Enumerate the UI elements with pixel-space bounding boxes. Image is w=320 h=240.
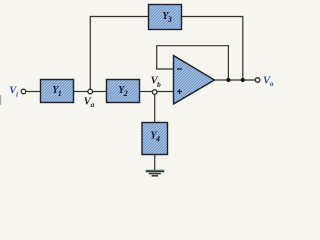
wire Y4 to ground bbox=[154, 155, 156, 171]
svg-text:3: 3 bbox=[167, 15, 172, 24]
node terminal Vi bbox=[21, 89, 26, 94]
junction dot feedback/output bbox=[226, 78, 230, 82]
svg-text:1: 1 bbox=[58, 89, 62, 98]
wire feedback: minus input left, up, over op-amp, down to output bbox=[157, 46, 229, 80]
block Y1 bbox=[41, 80, 74, 103]
op-amp plus pin mark bbox=[177, 89, 182, 94]
block Y2 bbox=[107, 80, 140, 103]
svg-text:4: 4 bbox=[155, 135, 160, 144]
node Va bbox=[88, 89, 93, 94]
wire Y2 to node Vb bbox=[140, 91, 153, 93]
wire node Vb to op-amp + input bbox=[157, 91, 174, 93]
wire node Va to Y2 bbox=[92, 91, 106, 93]
ground bbox=[146, 170, 164, 176]
svg-text:2: 2 bbox=[123, 89, 128, 98]
op-amp U1 bbox=[174, 56, 215, 105]
block Y4 bbox=[142, 123, 168, 155]
block Y3 bbox=[149, 5, 182, 30]
junction dot Y3/output bbox=[241, 78, 245, 82]
wire Va vertical up to Y3 row bbox=[90, 17, 148, 90]
node terminal Vo bbox=[255, 78, 260, 83]
svg-text:a: a bbox=[91, 100, 95, 109]
scan smudge left edge bbox=[0, 95, 1, 105]
wire Y1 to node Va bbox=[74, 91, 89, 93]
wire op-amp output to Vo terminal bbox=[214, 79, 256, 81]
op-amp minus pin mark bbox=[177, 68, 182, 70]
svg-text:b: b bbox=[157, 80, 161, 89]
node Vb bbox=[152, 90, 157, 95]
wire input Vi to Y1 bbox=[26, 91, 41, 93]
svg-text:o: o bbox=[270, 79, 274, 88]
wire node Vb down to Y4 bbox=[154, 94, 156, 123]
wire Y3 output right and down to output node bbox=[182, 17, 243, 81]
